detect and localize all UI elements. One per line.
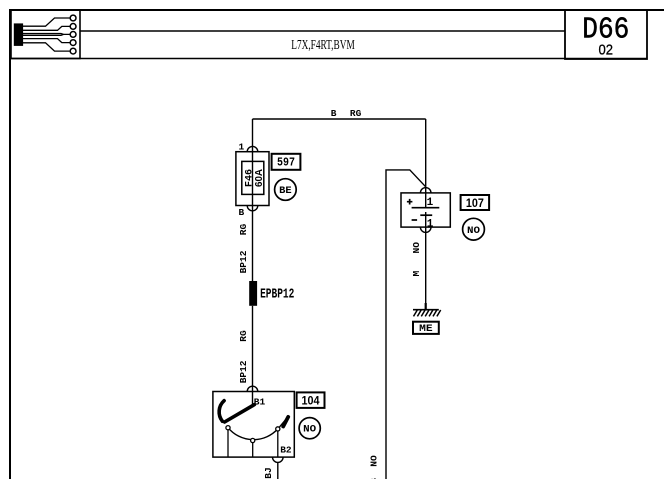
svg-text:NO: NO [411, 242, 422, 254]
qualifier circle NO [299, 418, 320, 439]
svg-text:104: 104 [302, 393, 320, 407]
svg-text:BP12: BP12 [238, 250, 249, 273]
svg-text:B: B [238, 207, 244, 218]
ground label box ME [413, 322, 439, 335]
qualifier circle BE [275, 179, 297, 201]
svg-text:ME: ME [419, 323, 433, 335]
svg-text:597: 597 [277, 156, 295, 170]
svg-text:B: B [331, 108, 337, 119]
component ref box 104 [297, 392, 325, 408]
svg-text:1: 1 [427, 197, 434, 209]
battery minus sign [412, 219, 418, 221]
svg-text:NO: NO [467, 225, 480, 237]
svg-text:BJ: BJ [263, 467, 274, 478]
component ref box 107 [461, 195, 490, 210]
battery 107 [401, 187, 450, 233]
battery plus sign [407, 199, 413, 205]
fuse F46 60A [236, 146, 269, 211]
svg-text:M: M [411, 270, 422, 276]
wire top horizontal B RG [253, 118, 426, 120]
page number D66 02 [582, 14, 629, 59]
svg-text:BE: BE [279, 185, 292, 197]
wire splice to switch [252, 306, 254, 386]
svg-text:60A: 60A [254, 169, 265, 187]
svg-text:EPBP12: EPBP12 [260, 288, 294, 303]
svg-text:RG: RG [350, 108, 362, 119]
svg-text:L7X,F4RT,BVM: L7X,F4RT,BVM [291, 38, 355, 53]
svg-text:B2: B2 [280, 444, 292, 455]
svg-text:NO: NO [303, 424, 316, 436]
svg-text:BP12: BP12 [238, 360, 249, 383]
svg-text:NO: NO [368, 455, 379, 467]
svg-text:107: 107 [466, 196, 484, 210]
svg-text:B1: B1 [254, 397, 266, 408]
qualifier circle NO battery [463, 218, 485, 240]
component ref box 597 [272, 154, 301, 170]
svg-text:RG: RG [238, 224, 249, 236]
wire battery feed vertical [425, 119, 427, 187]
svg-text:1: 1 [427, 219, 434, 231]
svg-text:1: 1 [239, 141, 245, 152]
svg-text:RG: RG [238, 330, 249, 342]
svg-text:02: 02 [599, 42, 614, 59]
wire NO branch [386, 170, 426, 479]
splice EPBP12 [249, 281, 294, 306]
wire battery minus to ground [425, 232, 427, 309]
logo harness connector icon [14, 15, 76, 54]
wire fuse to splice [252, 211, 254, 281]
ground ME [413, 303, 441, 316]
ignition switch 104 [213, 386, 294, 462]
wire below switch B2 [277, 462, 279, 479]
wire down to fuse [252, 119, 254, 146]
